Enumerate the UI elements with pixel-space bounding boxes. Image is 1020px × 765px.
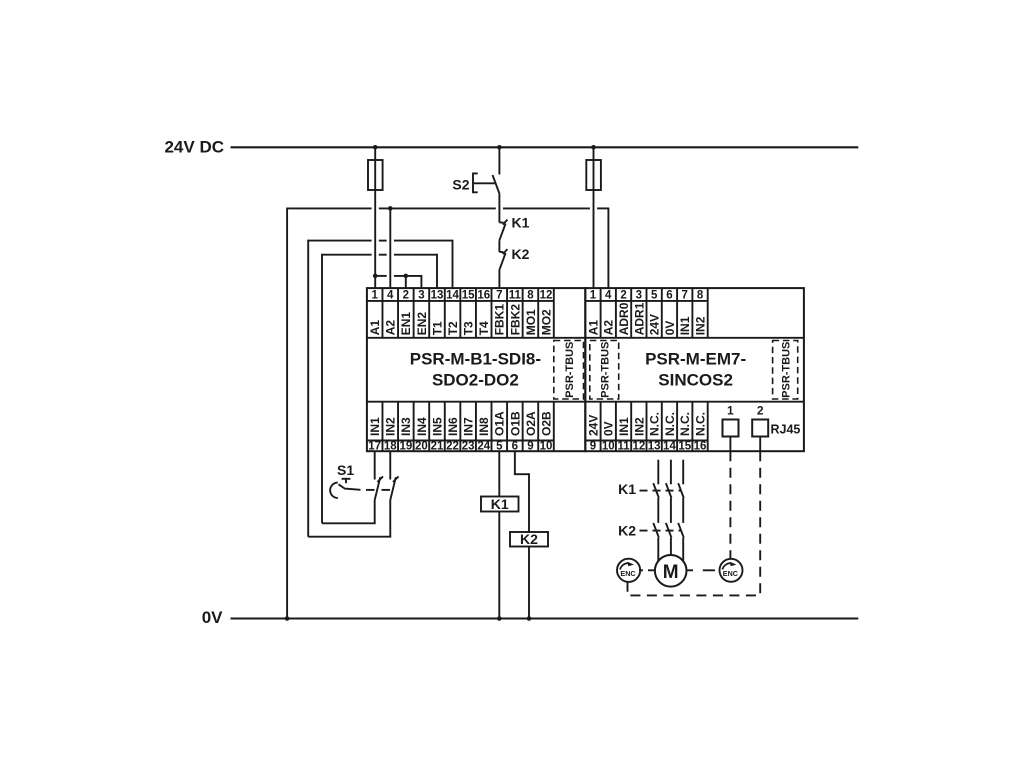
svg-text:20: 20: [415, 441, 428, 453]
wire K1 coil to 0V: [498, 512, 500, 619]
wire 24V DC supply rail: [231, 146, 859, 148]
svg-text:S2: S2: [452, 177, 469, 193]
svg-text:N.C.: N.C.: [663, 412, 677, 436]
svg-text:7: 7: [496, 290, 502, 302]
wire EN1 stub: [405, 276, 407, 288]
svg-text:EN2: EN2: [415, 312, 429, 336]
junction dot 24V/F2: [591, 145, 596, 150]
svg-text:ENC: ENC: [723, 569, 738, 578]
svg-text:EN1: EN1: [399, 312, 413, 336]
svg-text:2: 2: [620, 290, 626, 302]
relay module U1 outline: [367, 288, 585, 451]
contactor K2 power contacts: [653, 523, 684, 538]
svg-text:O1B: O1B: [508, 411, 522, 436]
svg-text:12: 12: [632, 441, 645, 453]
U2 right PSR-TBUS connector: [773, 341, 798, 400]
svg-text:FBK1: FBK1: [493, 304, 507, 336]
svg-text:ENC: ENC: [620, 569, 635, 578]
wire K1-K2 contacts: [498, 240, 500, 252]
svg-text:IN1: IN1: [617, 417, 631, 436]
svg-text:O2A: O2A: [524, 411, 538, 436]
wire T1 loop (S1 contact 1 return): [322, 254, 437, 524]
wire S2 upper: [498, 147, 500, 174]
svg-text:14: 14: [446, 290, 459, 302]
svg-text:RJ45: RJ45: [771, 422, 801, 436]
svg-text:PSR-TBUS: PSR-TBUS: [599, 342, 611, 398]
svg-text:K2: K2: [618, 522, 636, 538]
fuse F2: [586, 160, 601, 190]
contactor K1 power contacts: [653, 483, 684, 498]
junction dot EN1 tap: [404, 274, 409, 279]
svg-text:15: 15: [462, 290, 475, 302]
svg-text:M: M: [663, 562, 679, 583]
relay coil K1: [481, 496, 519, 512]
svg-text:ADR0: ADR0: [617, 302, 631, 335]
svg-text:23: 23: [462, 441, 475, 453]
svg-text:5: 5: [651, 290, 658, 302]
wire S1 contact 2 return: [308, 500, 391, 537]
wire K2 contact to FBK1 terminal: [498, 270, 500, 288]
svg-text:K1: K1: [618, 481, 636, 497]
svg-text:15: 15: [678, 441, 691, 453]
U2 terminal grid: [585, 288, 804, 451]
svg-text:11: 11: [617, 441, 630, 453]
svg-text:PSR-M-B1-SDI8-: PSR-M-B1-SDI8-: [410, 350, 541, 369]
svg-text:21: 21: [431, 441, 444, 453]
U1 terminal grid: [367, 288, 585, 451]
junction dot A1/EN jumper: [373, 274, 378, 279]
label K2 (power): [618, 522, 636, 538]
label S2: [452, 177, 469, 193]
svg-text:6: 6: [666, 290, 672, 302]
svg-text:3: 3: [418, 290, 424, 302]
svg-text:PSR-M-EM7-: PSR-M-EM7-: [645, 350, 746, 369]
svg-text:7: 7: [682, 290, 688, 302]
label 0V: [202, 608, 223, 627]
junction dot 24V/F1: [373, 145, 378, 150]
svg-text:S1: S1: [337, 462, 354, 478]
switch S1 mushroom button: [330, 479, 390, 498]
svg-text:8: 8: [697, 290, 704, 302]
U1 PSR-TBUS connector: [554, 341, 584, 400]
svg-text:A2: A2: [384, 320, 398, 336]
svg-text:0V: 0V: [202, 608, 223, 627]
svg-text:SINCOS2: SINCOS2: [658, 371, 733, 390]
relay coil K2: [510, 531, 548, 547]
svg-text:O2B: O2B: [539, 411, 553, 436]
svg-text:SDO2-DO2: SDO2-DO2: [432, 371, 519, 390]
svg-text:IN1: IN1: [368, 417, 382, 436]
junction dot K1/0V: [497, 616, 502, 621]
label K2: [512, 246, 530, 262]
fuse F1: [368, 160, 383, 190]
svg-text:22: 22: [446, 441, 459, 453]
svg-text:FBK2: FBK2: [508, 304, 522, 336]
svg-text:18: 18: [384, 441, 397, 453]
label K1 (power): [618, 481, 636, 497]
K2 linkage: [640, 530, 681, 532]
switch S2 actuator: [473, 173, 495, 192]
svg-text:1: 1: [590, 290, 597, 302]
K1 linkage: [640, 490, 681, 492]
svg-text:8: 8: [527, 290, 534, 302]
wire EN1/EN2 jumper: [375, 275, 421, 288]
svg-text:14: 14: [663, 441, 676, 453]
svg-text:IN2: IN2: [384, 417, 398, 436]
svg-text:10: 10: [540, 441, 553, 453]
svg-text:K2: K2: [520, 531, 538, 547]
svg-text:IN7: IN7: [462, 417, 476, 436]
svg-text:2: 2: [403, 290, 409, 302]
svg-text:6: 6: [512, 441, 518, 453]
svg-text:A1: A1: [586, 320, 600, 336]
svg-text:2: 2: [757, 404, 764, 418]
wire IN1 to S1 contact: [374, 451, 376, 479]
svg-text:24V DC: 24V DC: [164, 138, 224, 157]
dashed RJ45-1 to ENC right: [729, 451, 731, 559]
wire S2 to K1 contact: [498, 194, 500, 223]
wire K2 poles to motor: [658, 538, 683, 562]
label RJ45: [771, 422, 801, 436]
svg-text:PSR-TBUS: PSR-TBUS: [564, 342, 576, 398]
svg-text:24V: 24V: [586, 415, 600, 436]
svg-text:K1: K1: [491, 496, 509, 512]
U2 bottom terminal numbers: [590, 441, 707, 453]
contact K2 (in S2 chain): [499, 249, 507, 270]
U2 RJ45 port 1: [723, 404, 739, 452]
svg-text:MO1: MO1: [524, 309, 538, 335]
svg-text:T4: T4: [477, 321, 491, 335]
label U1 PSR-M-B1-SDI8-SDO2-DO2: [410, 350, 541, 390]
svg-text:K2: K2: [512, 246, 530, 262]
svg-text:IN8: IN8: [477, 417, 491, 436]
wire K2 coil to 0V: [528, 547, 530, 619]
encoder ENC left: [617, 559, 640, 582]
svg-text:A2: A2: [602, 320, 616, 336]
svg-text:13: 13: [431, 290, 444, 302]
svg-text:9: 9: [590, 441, 596, 453]
dashed RJ45-2 to ENC left: [628, 451, 761, 595]
svg-text:19: 19: [399, 441, 412, 453]
svg-text:16: 16: [477, 290, 490, 302]
svg-text:T2: T2: [446, 321, 460, 335]
dashes ENC left to motor: [639, 569, 655, 571]
junction dot 24V/S2: [497, 145, 502, 150]
contact K1 (in S2 chain): [499, 220, 507, 241]
junction dot A2 tap: [388, 206, 393, 211]
dashes motor to ENC right: [687, 569, 715, 571]
svg-text:4: 4: [387, 290, 394, 302]
svg-text:IN2: IN2: [632, 417, 646, 436]
svg-text:12: 12: [540, 290, 553, 302]
U2 top terminal labels: [586, 302, 707, 335]
encoder ENC right: [720, 559, 743, 582]
svg-text:16: 16: [694, 441, 707, 453]
wire S1 contact 1 return: [322, 500, 376, 523]
wire A2 terminal feed: [389, 208, 391, 288]
svg-text:3: 3: [636, 290, 642, 302]
svg-text:N.C.: N.C.: [678, 412, 692, 436]
svg-text:IN3: IN3: [399, 417, 413, 436]
wire 0V feeder drop to 0V rail: [286, 207, 288, 618]
wire F2 branch: [593, 147, 595, 288]
svg-text:9: 9: [527, 441, 533, 453]
label K1: [512, 215, 530, 231]
svg-text:K1: K1: [512, 215, 530, 231]
label S1: [337, 462, 354, 478]
junction dot K2/0V: [527, 616, 532, 621]
svg-text:N.C.: N.C.: [648, 412, 662, 436]
U2 RJ45 port 2: [752, 404, 768, 452]
svg-text:1: 1: [371, 290, 378, 302]
wire F1 branch: [374, 147, 376, 288]
wire 0V return rail: [231, 617, 859, 619]
svg-text:ADR1: ADR1: [632, 302, 646, 335]
motor M: [655, 555, 687, 587]
svg-text:IN5: IN5: [430, 417, 444, 436]
svg-text:5: 5: [496, 441, 503, 453]
U1 bottom terminal numbers: [368, 441, 552, 453]
svg-text:0V: 0V: [663, 321, 677, 336]
svg-text:MO2: MO2: [539, 309, 553, 335]
svg-text:IN2: IN2: [693, 316, 707, 335]
U1 top terminal numbers: [371, 290, 552, 302]
switch S1 contact 1: [375, 476, 383, 500]
wire O1A to K1 coil: [498, 451, 500, 496]
switch S1 contact 2: [390, 476, 398, 500]
U1 bottom terminal labels: [368, 411, 553, 436]
svg-text:T1: T1: [430, 321, 444, 335]
switch S2 blade: [493, 175, 500, 194]
svg-text:T3: T3: [462, 321, 476, 335]
svg-text:IN1: IN1: [678, 316, 692, 335]
label 24V DC: [164, 138, 224, 157]
svg-text:IN4: IN4: [415, 417, 429, 436]
relay module U2 outline: [585, 288, 804, 451]
svg-text:PSR-TBUS: PSR-TBUS: [780, 342, 792, 398]
svg-text:A1: A1: [368, 320, 382, 336]
svg-text:IN6: IN6: [446, 417, 460, 436]
svg-text:13: 13: [648, 441, 661, 453]
U2 left PSR-TBUS connector: [590, 341, 619, 400]
label U2 PSR-M-EM7-SINCOS2: [645, 350, 746, 390]
svg-text:N.C.: N.C.: [693, 412, 707, 436]
junction dot feeder/0V rail: [285, 616, 290, 621]
svg-text:O1A: O1A: [493, 411, 507, 436]
wire 0V feeder rail to A2 terminals: [287, 207, 608, 288]
wire T2 loop (S1 contact 2 return): [308, 240, 452, 537]
svg-text:24: 24: [477, 441, 490, 453]
svg-text:0V: 0V: [602, 421, 616, 436]
U2 top terminal numbers: [590, 290, 704, 302]
svg-text:11: 11: [509, 290, 522, 302]
svg-text:4: 4: [605, 290, 612, 302]
svg-text:24V: 24V: [648, 314, 662, 335]
svg-text:1: 1: [727, 404, 734, 418]
svg-text:10: 10: [602, 441, 615, 453]
U2 bottom terminal labels: [586, 412, 707, 436]
wire K1 to K2 poles: [658, 498, 683, 523]
wire O1B to K2 coil: [514, 451, 529, 532]
U1 top terminal labels: [368, 304, 553, 336]
svg-text:17: 17: [368, 441, 381, 453]
wire IN2 to S1 contact: [389, 451, 391, 479]
wire 3-phase stubs from U2: [658, 460, 683, 485]
